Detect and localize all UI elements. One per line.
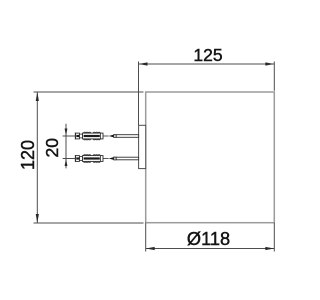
dark core band <box>76 135 79 137</box>
extension line upper <box>63 135 76 137</box>
svg-text:20: 20 <box>42 138 62 158</box>
extension line top <box>34 91 144 93</box>
svg-text:125: 125 <box>193 45 222 65</box>
rib bumps bottom <box>84 139 101 140</box>
extension line left <box>145 223 147 252</box>
dimension line <box>36 92 38 223</box>
dimension line <box>139 63 275 65</box>
screw + wall plug (upper), center y=136 <box>75 132 138 140</box>
extension line left (to bracket) <box>138 62 140 126</box>
extension line right <box>273 62 275 91</box>
screw + wall plug (lower), center y=158.5 <box>75 155 138 163</box>
dimension line <box>146 248 275 250</box>
dowel end inner line <box>100 133 102 139</box>
extension line bottom <box>34 222 144 224</box>
neck <box>79 134 82 138</box>
cone to shaft <box>114 135 116 138</box>
lamp body (cylinder side view) <box>146 92 275 223</box>
svg-text:120: 120 <box>18 140 38 170</box>
rib bumps top <box>84 132 101 133</box>
flange bar <box>74 133 76 140</box>
collar <box>76 133 80 139</box>
dowel body <box>83 133 104 139</box>
threaded shaft <box>116 135 138 138</box>
extension line right <box>273 223 275 252</box>
screw tip cone (dark) <box>109 135 114 138</box>
svg-text:Ø118: Ø118 <box>187 229 230 249</box>
dimension line <box>65 124 67 169</box>
thin centerline between dowel and screw tip <box>103 135 109 137</box>
extension line lower <box>63 158 76 160</box>
wall mounting bracket <box>139 125 146 168</box>
